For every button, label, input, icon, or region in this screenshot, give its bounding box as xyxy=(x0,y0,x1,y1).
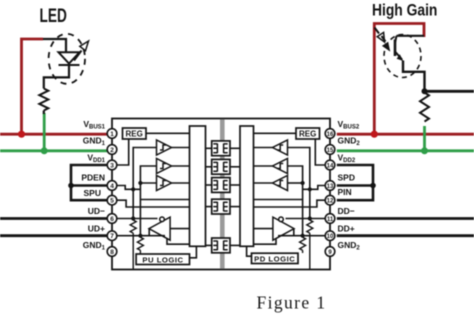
svg-text:DD+: DD+ xyxy=(338,224,355,234)
wire SPD internal xyxy=(303,186,327,190)
wire U1d input xyxy=(170,228,189,230)
node junction on GND1 xyxy=(41,147,48,154)
svg-text:1: 1 xyxy=(110,131,114,138)
node U2c tap xyxy=(301,181,305,185)
node junction on GND2 xyxy=(421,147,428,154)
wire R1 to green xyxy=(43,111,45,115)
wire U1a input net xyxy=(133,148,156,220)
IC outline U1 xyxy=(112,119,330,270)
wire DD+ (right) xyxy=(337,234,474,237)
pin 1 xyxy=(107,129,117,139)
pin 2 xyxy=(107,145,117,155)
wire DD+ internal xyxy=(278,235,326,237)
pin 10 xyxy=(325,231,335,241)
pin 13 xyxy=(325,181,335,191)
wire REG2 out to interface xyxy=(254,132,297,134)
wire LED anode xyxy=(43,39,66,52)
wire U1c out xyxy=(172,182,190,184)
svg-text:UD−: UD− xyxy=(88,206,105,216)
wire SPU internal xyxy=(117,200,190,207)
wire VBUS2 (red bus, right) xyxy=(337,133,474,136)
resistor R2 (emitter load) xyxy=(420,93,429,122)
pin 16 xyxy=(325,129,335,139)
svg-text:15: 15 xyxy=(327,148,334,154)
pin 3 xyxy=(107,160,117,170)
resistor pull-up A xyxy=(130,220,136,269)
resistor R1 (LED series) xyxy=(39,89,48,111)
wire REG1 out to interface xyxy=(146,132,190,134)
resistor pull-down B xyxy=(300,237,306,253)
wire U2c input stub xyxy=(288,182,303,184)
wire phototransistor return (green) xyxy=(423,126,426,151)
wire channel 4 right xyxy=(254,199,303,201)
transformer T3 xyxy=(206,178,241,193)
node junction on VBUS2 xyxy=(371,131,378,138)
node DD+ tap xyxy=(301,234,305,238)
LED emission arrows xyxy=(74,41,89,61)
svg-text:PD LOGIC: PD LOGIC xyxy=(254,254,295,263)
wire U2d input xyxy=(254,228,273,230)
buffer U2c xyxy=(273,176,288,191)
wire LED supply riser (red) xyxy=(22,39,44,134)
pin 8 xyxy=(107,247,117,257)
regulator REG left xyxy=(123,128,147,139)
wire channel 4 xyxy=(140,199,189,201)
pin 11 xyxy=(325,214,335,224)
phototransistor dashed envelope xyxy=(384,35,421,78)
pin 15 xyxy=(325,145,335,155)
node UD- tap xyxy=(131,216,135,220)
transformer T4 xyxy=(206,199,241,214)
svg-text:LED: LED xyxy=(40,5,67,27)
pin 7 xyxy=(107,231,117,241)
svg-text:REG: REG xyxy=(299,130,316,139)
wire bracket VDD2/SPD/PIN xyxy=(337,165,373,200)
svg-text:12: 12 xyxy=(327,199,334,205)
wire REG2 to VDD2 xyxy=(315,139,325,165)
node emitter junction xyxy=(422,88,428,94)
node bracket junction right xyxy=(370,183,376,189)
wire U2c out xyxy=(254,182,273,184)
transformer T1 xyxy=(206,141,241,156)
wire U1b input net xyxy=(140,166,156,237)
svg-text:4: 4 xyxy=(110,183,114,190)
wire GND2 (green bus, right) xyxy=(337,149,474,152)
driver U2d (right receiver) xyxy=(273,217,294,240)
wire LED return (green) xyxy=(43,113,46,151)
buffer U1c xyxy=(157,176,172,191)
interface block right xyxy=(240,126,254,246)
pin 12 xyxy=(325,195,335,205)
wire phototransistor supply (red) xyxy=(374,24,424,135)
wire U1a out xyxy=(172,147,190,149)
svg-text:PIN: PIN xyxy=(338,187,352,197)
buffer U2b xyxy=(273,159,288,174)
wire U2b input net xyxy=(288,166,303,237)
wire U2b out xyxy=(254,165,273,167)
svg-text:DD−: DD− xyxy=(338,206,355,216)
svg-text:High Gain: High Gain xyxy=(372,1,437,19)
svg-text:14: 14 xyxy=(327,164,334,170)
diode LED (optocoupler emitter) xyxy=(59,52,80,65)
wire UD- internal xyxy=(117,218,158,220)
pin 5 xyxy=(107,195,117,205)
pin 6 xyxy=(107,214,117,224)
node DD- tap xyxy=(308,216,312,220)
buffer U1b xyxy=(157,159,172,174)
regulator REG right xyxy=(296,128,320,139)
svg-text:13: 13 xyxy=(327,184,334,190)
svg-text:8: 8 xyxy=(110,249,114,256)
interface block left xyxy=(190,126,206,246)
transistor Q1 (high gain phototransistor) xyxy=(395,36,424,61)
wire U2a out xyxy=(254,147,273,149)
svg-text:3: 3 xyxy=(110,163,114,170)
svg-text:6: 6 xyxy=(110,216,114,223)
resistor pull-down A xyxy=(307,220,313,269)
wire PD to interface xyxy=(247,246,252,256)
pin 9 xyxy=(325,247,335,257)
logic PU xyxy=(136,254,189,265)
wire U2d output xyxy=(293,229,295,236)
svg-text:SPD: SPD xyxy=(338,173,355,183)
node bracket junction left xyxy=(68,183,74,189)
wire U1b out xyxy=(172,165,190,167)
wire REG1 to VDD1 xyxy=(117,139,129,165)
node U1c tap xyxy=(138,181,142,185)
wire output (top right) xyxy=(425,90,474,93)
svg-text:2: 2 xyxy=(110,147,114,154)
wire enable channel left xyxy=(167,239,190,245)
transformer T5 xyxy=(206,238,241,253)
svg-text:PDEN: PDEN xyxy=(81,173,105,183)
transformer T2 xyxy=(206,159,241,174)
wire U1d output xyxy=(148,229,150,236)
driver U1d (left receiver) xyxy=(149,217,170,240)
wire PU to interface xyxy=(190,246,197,257)
node PDEN junction xyxy=(131,187,135,191)
svg-text:10: 10 xyxy=(327,234,334,240)
wire UD+ internal xyxy=(117,235,165,237)
svg-text:PU LOGIC: PU LOGIC xyxy=(142,255,183,264)
wire DD- internal xyxy=(286,218,327,220)
wire U2a input net xyxy=(288,148,310,220)
wire enable channel right xyxy=(254,239,277,245)
wire PIN internal xyxy=(254,200,327,207)
wire VBUS1 (red bus, left) xyxy=(0,133,107,136)
light arrows into Q1 xyxy=(375,28,390,51)
pin 4 xyxy=(107,181,117,191)
wire Q1 emitter xyxy=(403,61,425,92)
wire U1c input stub xyxy=(140,182,156,184)
wire DD- (right) xyxy=(337,217,474,220)
svg-text:REG: REG xyxy=(126,130,143,139)
node junction on VBUS1 xyxy=(18,131,25,138)
isolation barrier xyxy=(220,119,225,268)
svg-text:7: 7 xyxy=(110,233,114,240)
LED dashed envelope xyxy=(49,34,85,84)
wire UD+ (left) xyxy=(0,234,107,237)
svg-text:Figure 1: Figure 1 xyxy=(256,293,326,313)
logic PD xyxy=(252,253,299,263)
svg-text:16: 16 xyxy=(327,132,334,138)
wire GND1 (green bus, left) xyxy=(0,149,107,152)
buffer U1a xyxy=(157,140,172,155)
wire PDEN internal xyxy=(117,186,141,190)
svg-text:SPU: SPU xyxy=(84,188,101,198)
node SPD junction xyxy=(308,187,312,191)
buffer U2a xyxy=(273,140,288,155)
wire UD- (left) xyxy=(0,217,107,220)
resistor pull-up B xyxy=(137,237,143,254)
wire LED cathode xyxy=(44,65,69,89)
node UD+ tap xyxy=(138,234,142,238)
svg-text:5: 5 xyxy=(110,198,114,205)
pin 14 xyxy=(325,160,335,170)
svg-text:UD+: UD+ xyxy=(88,224,105,234)
svg-text:11: 11 xyxy=(327,217,334,223)
wire bracket VDD1/PDEN/SPU xyxy=(71,165,107,200)
